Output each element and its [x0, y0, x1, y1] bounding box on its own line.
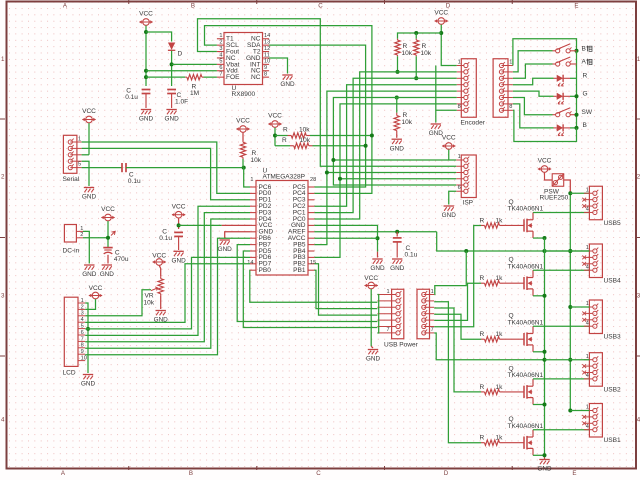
wire PB1 net — [314, 270, 377, 308]
svg-text:GND: GND — [442, 212, 457, 219]
svg-text:FOE: FOE — [226, 74, 240, 81]
wire lcd pin1 gnd — [85, 303, 88, 373]
wire panel pin7 net — [513, 104, 554, 128]
power VCC VCC serial — [86, 116, 93, 123]
wire PB0 net — [250, 270, 378, 302]
wire pullup1 lead — [275, 135, 288, 137]
power VCC VCC reset pullup — [240, 126, 247, 133]
ground GND under C0.1u — [141, 109, 151, 111]
svg-text:USB4: USB4 — [604, 278, 621, 285]
wire PB2 net — [314, 264, 377, 315]
connector USB5 — [589, 186, 602, 220]
svg-text:VCC: VCC — [538, 158, 552, 165]
svg-text:4: 4 — [1, 416, 5, 423]
wire reset pullup bottom — [242, 159, 244, 168]
svg-text:10: 10 — [264, 59, 270, 65]
svg-text:GND: GND — [82, 194, 97, 201]
ground GND ISP — [444, 205, 454, 207]
wire usb3 pin1 link — [570, 306, 589, 308]
wire panel pin6 net — [513, 98, 553, 115]
resistor R 1M — [185, 76, 187, 78]
svg-text:1: 1 — [78, 136, 81, 142]
wire enc pin2 net — [314, 72, 456, 219]
junction vbus tap USB4 — [568, 249, 572, 253]
LED LED B — [554, 127, 557, 129]
wire SCL net top — [205, 26, 372, 194]
svg-text:GND: GND — [81, 381, 96, 388]
svg-text:10k: 10k — [402, 119, 413, 126]
resistor R 10k (SCL pullup) — [290, 145, 294, 147]
junction lcd gnd tap — [86, 327, 90, 331]
svg-text:5: 5 — [78, 162, 81, 168]
svg-text:R: R — [403, 112, 408, 119]
wire USB3 drain row — [533, 325, 589, 327]
junction isp row1 left — [331, 158, 335, 162]
wire up pin5 net — [434, 283, 481, 320]
svg-text:4: 4 — [219, 52, 222, 58]
capacitor C 0.1u (DTR) — [121, 163, 123, 172]
wire enc row6 pulldown wire — [396, 98, 398, 113]
ground GND under C1.0F — [166, 109, 176, 111]
wire usbpower vcc-gnd rail — [370, 289, 372, 346]
ground GND lcd — [83, 374, 93, 376]
wire usb2 pin1 link — [545, 359, 590, 361]
svg-text:12: 12 — [264, 46, 270, 52]
svg-text:GND: GND — [390, 145, 405, 152]
wire serial pin5 to cap — [82, 167, 122, 169]
resistor R 1k (USB2 gate) — [481, 391, 485, 393]
svg-text:ISP: ISP — [463, 200, 474, 207]
svg-text:A: A — [582, 59, 587, 66]
svg-text:USB3: USB3 — [604, 334, 621, 341]
svg-text:B: B — [582, 45, 587, 52]
wire serial pin2 net TXD — [82, 148, 250, 199]
svg-text:RX8900: RX8900 — [232, 91, 256, 98]
svg-text:SW: SW — [582, 109, 593, 116]
svg-text:Encoder: Encoder — [461, 120, 486, 127]
svg-text:D: D — [178, 51, 183, 58]
svg-text:RUEF250: RUEF250 — [540, 195, 569, 202]
svg-text:9: 9 — [81, 349, 84, 355]
svg-text:TK40A06N1: TK40A06N1 — [508, 423, 544, 430]
svg-text:E: E — [574, 2, 578, 9]
svg-text:R: R — [480, 435, 485, 442]
svg-text:1: 1 — [387, 289, 390, 295]
svg-text:0.1u: 0.1u — [125, 94, 138, 101]
svg-text:3: 3 — [1, 292, 5, 299]
wire enc pin6 net — [333, 98, 456, 186]
connector LCD — [64, 297, 78, 366]
junction pullup rail tap — [414, 31, 418, 35]
wire psw out — [564, 180, 571, 193]
wire GND rail — [544, 251, 546, 458]
junction node G — [575, 94, 579, 98]
wire USB2 drain row — [533, 378, 589, 380]
gate lead USB2 — [503, 391, 524, 393]
power VCC VCC ISP — [445, 143, 452, 150]
wire ISP pin4 row — [340, 178, 456, 180]
svg-text:DC-in: DC-in — [63, 248, 80, 255]
wire USB5 source row — [533, 237, 545, 239]
wire pullup A to row — [397, 56, 399, 72]
junction Vdd tap — [144, 69, 148, 73]
wire usbpower left pin1-7 tie — [377, 295, 378, 334]
svg-text:GND: GND — [171, 258, 186, 265]
connector DC-in — [64, 225, 76, 243]
svg-text:B: B — [189, 470, 193, 477]
svg-text:2: 2 — [80, 232, 83, 238]
svg-text:2: 2 — [81, 304, 84, 310]
wire USB1 source row — [533, 454, 545, 456]
wire panel pin8 net — [513, 110, 577, 141]
power VCC VCC pullups — [272, 121, 279, 128]
svg-text:1: 1 — [431, 289, 434, 295]
wire VCC encoder down — [441, 25, 456, 66]
svg-text:1: 1 — [250, 177, 253, 183]
power VCC VCC encoder pullups — [438, 18, 445, 25]
wire USB4 drain row — [533, 269, 589, 271]
svg-text:7: 7 — [387, 327, 390, 333]
wire FOE wire left — [146, 76, 185, 78]
svg-text:R: R — [403, 43, 408, 50]
wire pullup2 to SCL — [313, 145, 366, 147]
ground GND ATMEGA left — [220, 239, 230, 241]
junction pullup node — [273, 134, 277, 138]
junction isp row4 tap — [338, 177, 342, 181]
capacitor C 0.1u (AREF) — [393, 237, 402, 239]
ground GND under aref cap — [392, 258, 402, 260]
svg-text:VCC: VCC — [101, 206, 115, 213]
ground GND usbpower — [368, 349, 378, 351]
capacitor C 470u — [103, 247, 112, 249]
svg-text:8: 8 — [509, 104, 512, 110]
svg-text:D: D — [446, 2, 451, 9]
wire aref cap lead — [396, 232, 398, 237]
wire panel common vertical — [576, 51, 578, 128]
transistor Q USB2 TK40A06N1 — [523, 386, 525, 398]
wire panel pin4 net — [513, 78, 554, 84]
svg-text:R: R — [480, 384, 485, 391]
svg-text:TK40A06N1: TK40A06N1 — [508, 319, 544, 326]
wire up pin2 net — [434, 302, 481, 443]
resistor R 1k (USB4 gate) — [481, 282, 485, 284]
wire usb4 pin1 link — [545, 250, 590, 252]
svg-text:10k: 10k — [402, 50, 413, 57]
svg-text:8: 8 — [264, 72, 267, 78]
svg-text:7: 7 — [431, 327, 434, 333]
svg-text:PB0: PB0 — [259, 267, 272, 274]
svg-text:9: 9 — [264, 65, 267, 71]
connector USB Power (left half) — [392, 289, 404, 339]
svg-text:10k: 10k — [251, 157, 262, 164]
svg-text:NC: NC — [251, 74, 261, 81]
fuse PSW RUEF250 — [552, 174, 564, 187]
connector panel (switch/LED header) — [493, 59, 508, 118]
connector USB2 — [589, 353, 602, 387]
wire pulldown to gnd — [396, 133, 398, 137]
svg-text:VCC: VCC — [364, 275, 378, 282]
junction pullup B junction — [414, 76, 418, 80]
wire AREF to VBUS feed — [437, 232, 590, 251]
svg-text:3: 3 — [219, 46, 222, 52]
wire enc pin8 gnd — [436, 109, 457, 111]
resistor R 10k (reset) — [242, 141, 244, 143]
wire R1M to FOE pin — [204, 76, 217, 78]
wire VBUS rail — [569, 193, 571, 410]
junction pulldown tap — [395, 96, 399, 100]
wire lcd pin8 net — [85, 219, 250, 348]
wire lcd pin2 vcc — [85, 299, 95, 309]
svg-text:0.1u: 0.1u — [128, 178, 141, 185]
resistor VR 10k — [160, 277, 162, 279]
wire VCC ISP down — [448, 150, 450, 160]
svg-text:6: 6 — [81, 330, 84, 336]
IC U RX8900 — [224, 33, 263, 85]
svg-text:GND: GND — [82, 271, 97, 278]
wire pullup1 to SDA — [310, 135, 372, 137]
wire VR top lead — [159, 265, 161, 277]
wire lcd pin7 net — [85, 213, 250, 342]
junction vbus tap USB1 — [568, 409, 572, 413]
wire dcin pin1 gnd — [83, 231, 89, 263]
wire dcin vcc stub — [107, 221, 109, 248]
svg-text:Serial: Serial — [63, 176, 80, 183]
wire serial vcc down — [88, 123, 90, 155]
ground GND VR — [156, 310, 166, 312]
svg-text:R: R — [480, 275, 485, 282]
svg-text:R: R — [282, 137, 287, 144]
junction gnd rail pin7 tap — [543, 358, 547, 362]
wire pullup rail — [398, 33, 442, 39]
ground GND under vcc cap — [173, 250, 183, 252]
wire USB5 drain row — [533, 211, 589, 213]
capacitor C 1.0F — [167, 89, 176, 91]
svg-text:GND: GND — [164, 116, 179, 123]
junction scl pullup junction — [364, 144, 368, 148]
IC U ATMEGA328P — [256, 181, 308, 276]
wire GND pin wire — [225, 232, 250, 239]
resistor R 10k (pulldown) — [396, 113, 398, 116]
svg-text:8: 8 — [458, 104, 461, 110]
junction aref cap tap — [395, 230, 399, 234]
junction src tap USB3 — [543, 350, 547, 354]
wire USB2 source row — [533, 404, 545, 406]
resistor R 10k (enc B) — [415, 33, 417, 39]
wire panel pin3 net — [513, 64, 553, 78]
wire AREF row — [314, 231, 436, 233]
svg-text:1: 1 — [81, 298, 84, 304]
svg-text:GND: GND — [366, 356, 381, 363]
wire serial pin4 gnd — [82, 161, 89, 186]
junction enc vcc node — [439, 31, 443, 35]
resistor R 1k (USB5 gate) — [481, 224, 485, 226]
wire reset pullup top — [242, 133, 244, 141]
connector ISP — [461, 155, 476, 198]
power VCC VCC (VR) — [156, 259, 163, 266]
wire ISP pin1 row — [333, 159, 456, 161]
svg-text:10k: 10k — [300, 137, 311, 144]
wire usb5 source jog — [544, 238, 546, 251]
wire reset to PC6 — [244, 168, 250, 187]
wire usb5 pin1 feed — [570, 192, 589, 194]
LED LED G — [554, 95, 557, 97]
svg-text:1: 1 — [586, 187, 589, 193]
svg-text:R: R — [283, 127, 288, 134]
svg-text:0.1u: 0.1u — [405, 252, 418, 259]
wire VCC row red part — [222, 224, 250, 226]
svg-text:1: 1 — [586, 354, 589, 360]
switch SW B-phase — [553, 50, 556, 52]
junction vbus tap usb5 — [568, 191, 572, 195]
wire enc pin7 net — [314, 104, 456, 258]
svg-text:C: C — [318, 2, 323, 9]
connector Encoder — [461, 59, 476, 118]
svg-text:VCC: VCC — [89, 285, 103, 292]
svg-text:GND: GND — [370, 265, 385, 272]
svg-text:1: 1 — [586, 405, 589, 411]
svg-text:VR: VR — [145, 293, 154, 300]
svg-text:1M: 1M — [190, 90, 199, 97]
junction src tap USB5 — [543, 236, 547, 240]
svg-text:3: 3 — [81, 311, 84, 317]
junction isp row3 tap — [325, 171, 329, 175]
wire gnd rail stub — [544, 458, 546, 460]
wire PD5 net — [243, 251, 377, 328]
wire LED B cathode — [570, 127, 577, 129]
wire GND stub red — [377, 252, 379, 258]
wire pullup B to row — [415, 56, 417, 78]
svg-text:GND: GND — [280, 81, 295, 88]
resistor R 10k (enc A) — [397, 39, 399, 40]
junction dcin node — [106, 236, 110, 240]
svg-text:1: 1 — [509, 59, 512, 65]
svg-text:2: 2 — [1, 173, 5, 180]
connector USB1 — [589, 404, 602, 438]
svg-text:C: C — [316, 470, 321, 477]
wire up pin4 net — [434, 314, 481, 339]
wire panel pin2 net — [513, 51, 553, 72]
power VCC VCC rail RX8900 — [143, 19, 150, 26]
wire enc pin4 net — [314, 85, 456, 207]
svg-text:11: 11 — [264, 52, 270, 58]
wire lcd pin9 net — [85, 238, 250, 355]
wire SDA net top — [269, 45, 366, 187]
svg-text:7: 7 — [219, 72, 222, 78]
svg-text:USB1: USB1 — [604, 437, 621, 444]
gate lead USB1 — [503, 442, 524, 444]
gate lead USB4 — [503, 282, 524, 284]
junction src tap USB4 — [543, 294, 547, 298]
power VCC VCC psw — [541, 166, 548, 173]
wire ISP pin3 row — [327, 172, 456, 174]
svg-text:PB1: PB1 — [293, 267, 306, 274]
connector Serial — [63, 135, 77, 173]
wire RX8900 GND pin11 — [269, 58, 287, 74]
svg-text:15: 15 — [310, 260, 316, 266]
wire VCC row to ATMEGA — [179, 224, 222, 226]
svg-text:TK40A06N1: TK40A06N1 — [508, 263, 544, 270]
ground GND rail symbol — [539, 459, 549, 461]
wire VR wiper net — [85, 290, 151, 316]
power VCC VCC dcin — [105, 214, 112, 221]
ground GND dcin2 — [102, 264, 112, 266]
junction vcc-diode — [144, 30, 148, 34]
svg-text:4: 4 — [81, 317, 84, 323]
switch SW A-phase — [553, 63, 556, 65]
svg-text:1: 1 — [458, 154, 461, 160]
svg-text:ATMEGA328P: ATMEGA328P — [263, 174, 306, 181]
wire up pin7 net — [434, 333, 544, 360]
wire Vbat wire — [172, 63, 217, 65]
wire VCC to diode — [146, 32, 172, 42]
junction avcc tap — [376, 236, 380, 240]
wire VCC down to GND rail — [145, 26, 147, 86]
svg-text:USB2: USB2 — [604, 386, 621, 393]
power VCC VCC (ATMEGA left) — [175, 211, 182, 218]
svg-text:VCC: VCC — [268, 113, 282, 120]
svg-text:R: R — [480, 331, 485, 338]
svg-text:VCC: VCC — [434, 10, 448, 17]
junction src tap USB2 — [543, 403, 547, 407]
wire lcd pin6 net — [85, 206, 250, 335]
ground GND (ATMEGA right) — [372, 258, 382, 260]
svg-text:13: 13 — [264, 40, 270, 46]
resistor R 1k (USB3 gate) — [481, 338, 485, 340]
wire diode to Vbat node — [171, 51, 173, 86]
junction sda pullup junction — [370, 134, 374, 138]
wire USB3 source row — [533, 351, 545, 353]
junction node B — [575, 126, 579, 130]
svg-text:1: 1 — [458, 59, 461, 65]
ground GND serial — [84, 187, 94, 189]
wire up pin3 net — [434, 308, 481, 392]
svg-text:1: 1 — [586, 301, 589, 307]
wire pullup2 lead — [275, 145, 290, 147]
svg-text:7: 7 — [81, 336, 84, 342]
switch SW push — [553, 114, 556, 116]
LED LED R — [554, 77, 557, 79]
connector USB4 — [589, 244, 602, 278]
wire cap470 bottom — [107, 255, 109, 264]
wire up pin6 net — [434, 225, 481, 326]
junction vbus tap USB2 — [568, 358, 572, 362]
svg-text:470u: 470u — [114, 256, 129, 263]
svg-text:VCC: VCC — [236, 118, 250, 125]
junction vbus feed b — [543, 249, 547, 253]
svg-text:10k: 10k — [421, 50, 432, 57]
svg-text:VCC: VCC — [442, 135, 456, 142]
wire pullup vcc stub — [274, 128, 276, 146]
power VCC VCC lcd — [92, 292, 99, 299]
ground GND pulldown — [392, 138, 402, 140]
svg-text:D: D — [444, 470, 449, 477]
wire panel pin1 net — [513, 39, 577, 66]
svg-text:VCC: VCC — [152, 252, 166, 259]
ground GND dcin1 — [84, 264, 94, 266]
svg-text:LCD: LCD — [63, 370, 76, 377]
wire psw vcc lead — [545, 173, 553, 180]
resistor R 10k (SDA pullup) — [288, 135, 292, 137]
svg-text:USB5: USB5 — [604, 220, 621, 227]
connector USB3 — [589, 300, 602, 334]
svg-text:1: 1 — [80, 226, 83, 232]
wire LED R cathode — [570, 77, 577, 79]
capacitor C 0.1u (RX8900) — [142, 89, 151, 91]
wire USB4 source row — [533, 295, 545, 297]
diode D — [168, 43, 175, 50]
ground GND RX8900 right — [282, 74, 292, 76]
svg-text:8: 8 — [81, 343, 84, 349]
